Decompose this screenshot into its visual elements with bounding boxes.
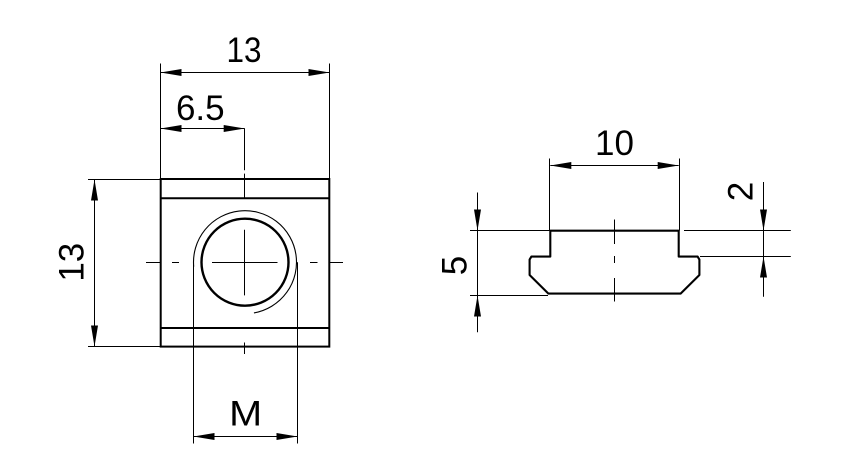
dimension 13 left: dimension line with arrows	[91, 180, 98, 347]
front view square body outline	[161, 179, 330, 347]
dimension 13 top: extension lines	[161, 64, 330, 179]
thread dimension M: extension lines	[194, 262, 298, 443]
dimension 5: dimension line with arrows	[474, 193, 481, 333]
dimension 10: dimension line with arrows	[550, 162, 678, 169]
dimension 5: extension lines	[470, 231, 550, 296]
dimension 6.5: dimension line with arrows	[161, 125, 245, 132]
svg-text:5: 5	[435, 256, 474, 275]
svg-text:2: 2	[722, 182, 761, 201]
thread dimension M: dimension line with arrows	[194, 433, 298, 440]
side view T-nut profile outline	[530, 231, 700, 294]
top flange edge line	[161, 197, 330, 199]
dimension 13 left: extension lines	[88, 180, 161, 347]
svg-text:13: 13	[227, 31, 262, 70]
side view vertical centerline	[614, 220, 616, 302]
horizontal centerline	[146, 262, 343, 264]
vertical centerline	[244, 129, 246, 355]
dimension 2: extension lines	[684, 231, 791, 257]
dimension 10: extension lines	[550, 159, 680, 231]
dimension 2: dimension line with arrows	[760, 182, 767, 297]
bottom flange edge line	[161, 327, 330, 329]
thread crest arc	[194, 211, 297, 313]
svg-text:13: 13	[52, 243, 91, 282]
svg-text:M: M	[229, 395, 262, 434]
dimension 13 top: dimension line with arrows	[161, 69, 330, 76]
svg-text:10: 10	[595, 124, 634, 163]
threaded hole circle	[202, 219, 289, 306]
svg-text:6.5: 6.5	[176, 89, 225, 128]
